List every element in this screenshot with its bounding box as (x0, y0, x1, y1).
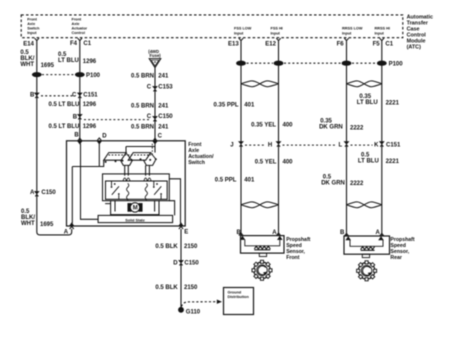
svg-text:0.35LT BLU: 0.35LT BLU (357, 94, 378, 106)
svg-text:GroundDistribution: GroundDistribution (228, 291, 250, 300)
svg-text:G110: G110 (186, 310, 201, 316)
svg-text:0.35 YEL: 0.35 YEL (251, 123, 276, 129)
relay coil 2 (145, 183, 147, 200)
svg-text:0.5DK GRN: 0.5DK GRN (321, 174, 345, 186)
svg-text:AutomaticTransferCaseControlMo: AutomaticTransferCaseControlModule(ATC) (407, 15, 433, 51)
svg-text:0.5 LT BLU: 0.5 LT BLU (49, 124, 80, 130)
wire 2222 from F6 (346, 41, 348, 236)
relay contact right (153, 181, 162, 199)
coil loop bumps left (123, 178, 130, 181)
svg-text:1296: 1296 (83, 102, 97, 108)
front axle actuator/switch box (67, 141, 186, 226)
wire 400 from E12 (278, 41, 280, 236)
relay coil 1 (127, 183, 129, 200)
splice P100 right (237, 61, 404, 67)
svg-text:400: 400 (283, 123, 294, 129)
svg-text:2221: 2221 (386, 101, 400, 107)
propshaft speed sensor front box (241, 236, 285, 257)
svg-text:400: 400 (283, 159, 294, 165)
svg-text:C150: C150 (158, 114, 173, 120)
svg-text:2222: 2222 (350, 181, 364, 187)
fuse 4WD feed (148, 49, 161, 68)
motor bracket (105, 201, 159, 215)
connector C151 left B-C (30, 92, 98, 98)
svg-text:0.5 PPL: 0.5 PPL (215, 177, 237, 183)
svg-text:D: D (102, 133, 107, 139)
svg-text:2222: 2222 (350, 125, 364, 131)
ground distribution dashed arrow (182, 300, 223, 307)
svg-text:2150: 2150 (184, 244, 198, 250)
svg-text:B: B (73, 114, 78, 120)
svg-text:E12: E12 (265, 41, 276, 47)
svg-text:RRSS HIInput: RRSS HIInput (375, 27, 390, 36)
twisted pair FSS upper (241, 81, 279, 87)
twisted pair FSS lower (241, 202, 279, 208)
svg-text:2221: 2221 (386, 159, 400, 165)
svg-text:K: K (374, 143, 379, 149)
ATC module dashed box (21, 15, 403, 38)
svg-text:C1: C1 (83, 41, 91, 47)
internal wire E column (169, 179, 180, 223)
internal wire C column (126, 144, 155, 153)
svg-text:0.5LT BLU: 0.5LT BLU (358, 153, 379, 165)
svg-text:241: 241 (158, 103, 169, 109)
internal wire D column (98, 144, 100, 167)
svg-text:241: 241 (158, 125, 169, 131)
svg-text:B: B (74, 133, 79, 139)
sensor rear pin B (340, 230, 350, 240)
svg-text:E13: E13 (228, 41, 239, 47)
svg-text:A: A (376, 230, 381, 236)
svg-text:0.5 LT BLU: 0.5 LT BLU (49, 102, 80, 108)
switch mechanical dashed link (109, 144, 153, 156)
sensor front pin A (272, 230, 281, 240)
svg-text:A: A (64, 230, 69, 236)
relay outer box (103, 174, 170, 201)
pin F6 (337, 38, 349, 47)
wire 1695 from E14 (37, 41, 72, 235)
svg-text:C151: C151 (83, 92, 98, 98)
wire 2150 from E to G110 (180, 229, 182, 309)
wiper funnel right (144, 160, 156, 176)
svg-text:241: 241 (158, 74, 169, 80)
internal tie A-B-D (72, 167, 99, 224)
pin C of actuator box (153, 133, 162, 143)
wire 1296 from F4 (79, 41, 81, 141)
svg-text:FSS HIInput: FSS HIInput (271, 27, 283, 36)
splice P100 left (32, 73, 100, 80)
ground G110 (179, 307, 201, 315)
svg-text:E: E (184, 230, 188, 236)
svg-text:M: M (133, 206, 138, 212)
svg-text:0.5 BRN: 0.5 BRN (131, 125, 154, 131)
motor M1 (128, 203, 142, 212)
svg-text:C1: C1 (385, 41, 393, 47)
svg-text:0.5 BLK: 0.5 BLK (155, 244, 178, 250)
svg-text:B: B (237, 230, 242, 236)
twisted pair RRSS lower (347, 202, 382, 208)
svg-text:PropshaftSpeedSensor,Front: PropshaftSpeedSensor,Front (286, 237, 310, 261)
svg-text:C: C (147, 85, 152, 91)
svg-text:1296: 1296 (83, 59, 97, 65)
svg-text:C: C (147, 114, 152, 120)
svg-text:F6: F6 (337, 41, 345, 47)
pin E12 (265, 38, 280, 47)
switch bank 2 (128, 153, 151, 161)
svg-text:C: C (72, 92, 77, 98)
svg-text:1695: 1695 (40, 222, 54, 228)
connector C153 (147, 85, 174, 92)
svg-text:B: B (340, 230, 345, 236)
svg-text:C150: C150 (184, 261, 199, 267)
reluctor gear rear (357, 261, 377, 281)
svg-text:0.35DK GRN: 0.35DK GRN (319, 119, 343, 131)
svg-text:0.5BLK/WHT: 0.5BLK/WHT (20, 50, 34, 68)
twisted pair RRSS upper (347, 81, 382, 87)
pin D of actuator box (97, 133, 107, 143)
svg-text:A: A (30, 190, 35, 196)
svg-text:0.5 BRN: 0.5 BRN (131, 74, 154, 80)
svg-text:(4WDFuse): (4WDFuse) (148, 49, 161, 58)
svg-text:FrontAxleActuation/Switch: FrontAxleActuation/Switch (188, 142, 214, 166)
pin E13 (228, 38, 243, 47)
svg-text:0.5 BLK: 0.5 BLK (155, 285, 178, 291)
svg-text:401: 401 (244, 103, 255, 109)
ground distribution box (224, 288, 254, 315)
svg-text:401: 401 (244, 177, 255, 183)
svg-text:FrontAxleActuatorControl: FrontAxleActuatorControl (72, 17, 88, 35)
relay contact left (111, 181, 120, 199)
internal wire B column (81, 144, 99, 220)
sensor front pin B (237, 230, 245, 240)
svg-text:0.5LT BLU: 0.5LT BLU (58, 52, 79, 64)
svg-text:A: A (272, 230, 277, 236)
connector D C150 on wire 2150 (173, 261, 199, 267)
svg-text:0.35 PPL: 0.35 PPL (214, 103, 239, 109)
wire 401 from E13 (240, 41, 242, 236)
svg-text:F4: F4 (70, 41, 78, 47)
svg-text:D: D (173, 261, 178, 267)
svg-text:C151: C151 (386, 143, 401, 149)
svg-text:C153: C153 (158, 85, 173, 91)
pin E of actuator box (179, 223, 188, 235)
svg-text:FrontAxleSwitchInput: FrontAxleSwitchInput (27, 17, 40, 35)
internal wire right of motor (169, 201, 174, 216)
switch contact dots (105, 158, 157, 163)
wiper funnel left (121, 160, 133, 176)
pin A of actuator box (64, 223, 74, 235)
wire 2221 from F5 (381, 41, 383, 236)
coil loop bumps right (144, 178, 151, 181)
svg-text:PropshaftSpeedSensor,Rear: PropshaftSpeedSensor,Rear (390, 237, 414, 261)
connector C151 right J-H-L-K (230, 142, 401, 149)
svg-text:1296: 1296 (83, 124, 97, 130)
switch bank feed stub (99, 160, 103, 166)
svg-text:B: B (30, 92, 35, 98)
connector C150 B-C (73, 114, 174, 121)
svg-text:J: J (230, 143, 233, 149)
pin B of actuator box (74, 133, 82, 144)
svg-text:0.5BLK/WHT: 0.5BLK/WHT (21, 209, 35, 227)
switch wiper stubs (126, 153, 155, 159)
svg-text:RRSS LOWInput: RRSS LOWInput (342, 27, 363, 36)
reluctor gear front (252, 260, 272, 280)
svg-text:L: L (339, 143, 343, 149)
svg-text:1695: 1695 (41, 63, 55, 69)
propshaft speed sensor rear box (344, 236, 390, 258)
svg-text:2150: 2150 (184, 285, 198, 291)
solid state box (98, 215, 173, 222)
svg-text:0.5 YEL: 0.5 YEL (255, 159, 277, 165)
svg-text:H: H (268, 143, 272, 149)
svg-text:F5: F5 (373, 41, 381, 47)
switch bank 1 (104, 153, 127, 161)
svg-text:P100: P100 (86, 73, 101, 79)
svg-text:C: C (158, 133, 163, 139)
relay inner box (106, 181, 168, 199)
pin F4 C1 (70, 38, 92, 47)
wire 241 from fuse (154, 68, 156, 141)
pin F5 C1 (373, 38, 394, 47)
svg-text:E14: E14 (23, 41, 34, 47)
sensor rear pin A (376, 230, 384, 240)
svg-text:0.5 BRN: 0.5 BRN (131, 103, 154, 109)
svg-text:P100: P100 (389, 62, 404, 68)
connector A C150 on wire 1695 (30, 190, 56, 197)
pin E14 (23, 38, 39, 47)
svg-text:Solid State: Solid State (125, 218, 145, 222)
svg-text:C150: C150 (41, 190, 56, 196)
svg-text:FSS LOWInput: FSS LOWInput (234, 27, 252, 36)
